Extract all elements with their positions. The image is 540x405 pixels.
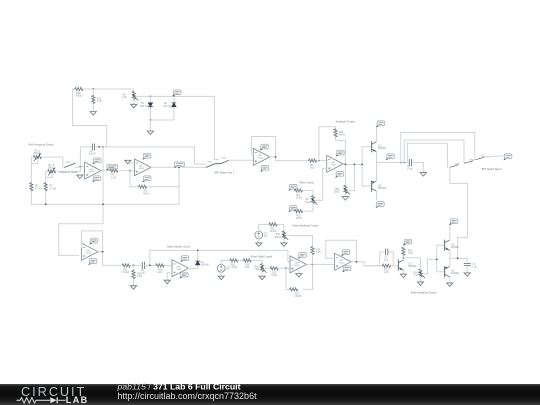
wire comparator ground pin (298, 271, 300, 274)
svg-text:1 kΩ: 1 kΩ (97, 101, 102, 103)
node junction cap corner (102, 146, 104, 148)
ground (90, 112, 96, 116)
wire OA4 output (98, 252, 117, 266)
wire wiper tap to output (349, 164, 355, 190)
V- label box OA1 (92, 176, 101, 182)
wire long vertical to BPF switch (214, 96, 219, 159)
potentiometer R26 (419, 269, 425, 278)
label box rail probe (386, 154, 395, 160)
node junction output OA1 (102, 170, 104, 172)
V+ label box OA7 (341, 250, 350, 256)
svg-text:Pulse Amplitude Control: Pulse Amplitude Control (293, 224, 319, 227)
node junction (457, 257, 459, 259)
switch SW3 (206, 164, 220, 168)
potentiometer R1_2 (48, 168, 56, 176)
wire OA7 feedback rectangle (326, 240, 357, 262)
wire pot R26 top lead (420, 266, 422, 270)
svg-text:500 Ω: 500 Ω (275, 237, 281, 239)
node junction Q3 collector (403, 257, 405, 259)
ground (464, 273, 470, 277)
wire pot to ground (344, 194, 346, 197)
svg-text:BPF Switch Side 1: BPF Switch Side 1 (214, 171, 234, 174)
capacitor C5 (409, 159, 411, 165)
resistor R19 (243, 259, 251, 262)
node junction (150, 96, 152, 98)
svg-text:10 kΩ: 10 kΩ (271, 275, 277, 277)
potentiometer R8 offset (311, 196, 317, 205)
wire V2 top rail (259, 224, 269, 231)
wire OA4 feedback rectangle (82, 231, 103, 252)
wire to OA6 plus input (229, 159, 254, 161)
wire to pot R21 (278, 224, 284, 232)
wire (150, 96, 174, 120)
ground arrow OA1 plus input (82, 174, 85, 176)
label box R4 ammeter (106, 164, 118, 170)
wire pot bottom (261, 272, 263, 276)
transistor Q5 2N3906 (445, 267, 450, 277)
wire Q5 emitter (449, 258, 451, 266)
svg-text:BPF Switch Side 2: BPF Switch Side 2 (482, 168, 502, 171)
ground (256, 243, 262, 247)
potentiometer R61 (344, 185, 350, 194)
svg-text:LM324: LM324 (257, 158, 263, 160)
wire OA7 output (351, 262, 380, 266)
svg-text:LM324: LM324 (86, 252, 92, 254)
V- label box OA3 (179, 272, 188, 278)
node junction (345, 164, 347, 166)
ground (281, 243, 287, 247)
V+ label box OA1 (92, 158, 101, 164)
ground arrow OA2 plus input (131, 162, 135, 164)
node junction (318, 160, 320, 162)
wire OA3 plus input stub (167, 273, 172, 280)
node junction (275, 156, 277, 158)
potentiometer R0 1k (132, 91, 138, 100)
op-amp OA2 (134, 159, 151, 176)
wire (149, 96, 151, 120)
wire V1 bottom (220, 272, 222, 276)
ground (447, 283, 453, 287)
logo resistor-diode squiggle (17, 398, 51, 403)
ground (130, 286, 136, 290)
wire Q4 collector (449, 224, 451, 240)
ground (342, 197, 348, 201)
resistor R23 (382, 264, 390, 267)
svg-text:Amplitude Control: Amplitude Control (336, 121, 355, 124)
svg-text:10 µF: 10 µF (407, 168, 414, 170)
wire pot bottom (283, 239, 285, 243)
switch SW1 (65, 163, 76, 167)
svg-text:4.7 kΩ: 4.7 kΩ (35, 188, 42, 190)
wire OA2 output (151, 166, 206, 168)
ground (420, 173, 426, 177)
resistor R08 (75, 87, 83, 90)
node junction (129, 170, 131, 172)
svg-text:2N3904: 2N3904 (408, 266, 417, 268)
svg-text:1 kΩ: 1 kΩ (310, 168, 315, 170)
svg-text:4.7 kΩ: 4.7 kΩ (49, 188, 56, 190)
ground (296, 274, 302, 278)
wire OA6 feedback rectangle (252, 137, 276, 157)
wire collector to pot R26 (403, 258, 420, 266)
svg-text:LM311: LM311 (294, 265, 300, 267)
wire to output port (484, 156, 505, 157)
ground (218, 276, 224, 280)
svg-text:Fine Frequency Control: Fine Frequency Control (29, 144, 54, 147)
resistor R22 (269, 223, 277, 226)
wire (57, 170, 80, 172)
capacitor C1 (92, 144, 94, 150)
svg-text:2N3906: 2N3906 (451, 273, 460, 275)
svg-text:500 Ω: 500 Ω (34, 153, 40, 155)
resistor R6b input (309, 159, 317, 162)
wire damper top rail (145, 250, 291, 265)
wire V2 bottom (258, 239, 260, 243)
node junction (312, 264, 314, 266)
comparator CMP1 LM311 (290, 256, 307, 273)
voltage source V1 (217, 264, 225, 272)
svg-text:LAB: LAB (66, 395, 89, 405)
svg-text:1 kΩ: 1 kΩ (254, 269, 259, 271)
svg-text:630 mV: 630 mV (140, 106, 148, 108)
ground (259, 276, 265, 280)
potentiometer R16 (261, 264, 267, 273)
capacitor C6 (142, 262, 144, 268)
svg-text:1 kΩ: 1 kΩ (316, 252, 321, 254)
node junction (354, 164, 356, 166)
transistor Q3 2N3904 (398, 260, 403, 270)
node junction (150, 119, 152, 121)
switch SW6 (450, 165, 459, 168)
wire Q5 collector (449, 277, 451, 283)
wire R11 leads (133, 265, 135, 285)
wire Q3 collector (402, 256, 404, 260)
wire pot wiper rail (137, 95, 215, 97)
node junction (361, 164, 363, 166)
ground (417, 282, 423, 286)
op-amp OA7 (335, 253, 352, 270)
svg-text:10 kΩ: 10 kΩ (296, 218, 302, 220)
wire (149, 120, 151, 131)
wire feedback loop up (319, 127, 346, 187)
wire R25 top to label (402, 244, 404, 247)
wire Q3 emitter (402, 270, 404, 274)
svg-text:1 kΩ: 1 kΩ (408, 253, 413, 255)
V+ label box OA5 (335, 150, 344, 156)
svg-text:http://circuitlab.com/crxqcn77: http://circuitlab.com/crxqcn7732b6t (118, 391, 258, 401)
label box V+ R25 (403, 239, 412, 245)
wire base column (362, 147, 372, 186)
svg-text:2N3906: 2N3906 (378, 188, 387, 190)
svg-text:2N3904: 2N3904 (378, 148, 387, 150)
wire to OA5 minus (318, 160, 327, 162)
wire (304, 204, 313, 212)
wire (239, 259, 243, 261)
node junction (92, 88, 94, 90)
op-amp OA4 (82, 243, 99, 260)
svg-text:1 kΩ: 1 kΩ (384, 272, 389, 274)
svg-text:Active Damper Circuit: Active Damper Circuit (167, 246, 190, 249)
switch SW5 (464, 161, 473, 163)
wire (75, 166, 85, 171)
svg-text:10 kΩ: 10 kΩ (270, 231, 276, 233)
node label box VD (172, 90, 181, 96)
node junction (403, 162, 405, 164)
node junction (178, 166, 180, 168)
resistor R4 (110, 169, 118, 172)
wire (117, 264, 141, 266)
resistor R60 (334, 129, 337, 137)
svg-text:1 µF: 1 µF (384, 260, 389, 262)
node junction (80, 166, 82, 168)
label box +2.5V source (288, 184, 297, 190)
V- label box OA5 (335, 172, 344, 178)
V- label box OA6 (260, 165, 269, 171)
svg-text:1 µF: 1 µF (140, 272, 145, 274)
resistor R5 (139, 185, 147, 188)
svg-text:1N4148: 1N4148 (201, 265, 210, 267)
node junction bus-R7 (45, 203, 47, 205)
svg-text:1.8 kΩ: 1.8 kΩ (230, 267, 237, 269)
svg-text:1 µF: 1 µF (472, 266, 477, 268)
wire base column q4 q5 (437, 245, 445, 272)
wire (304, 191, 313, 197)
wire feedback R5 (130, 167, 179, 204)
wire feedback to C1 (80, 147, 205, 167)
svg-text:Pulse Width Control: Pulse Width Control (251, 255, 273, 258)
wire (165, 264, 172, 266)
node junction cap rail (98, 146, 100, 148)
label box gain probe (174, 162, 185, 168)
wire RC parallel frame (364, 252, 398, 266)
diode D4 (196, 261, 200, 265)
node junction (173, 96, 175, 98)
svg-text:1 kΩ: 1 kΩ (157, 272, 162, 274)
label box V+ Q4 (449, 219, 458, 225)
op-amp OA3 damper (172, 260, 189, 277)
svg-text:10 kΩ: 10 kΩ (296, 197, 302, 199)
svg-text:LM324: LM324 (89, 171, 95, 173)
switch SW2 (220, 160, 229, 164)
wire emitter output rail (377, 163, 424, 173)
svg-text:500 Ω: 500 Ω (48, 167, 54, 169)
V+ label box OA3 (180, 256, 189, 262)
wire pot R26 bottom (420, 277, 422, 282)
transistor Q1 2N3904 (372, 142, 377, 152)
svg-text:1 kΩ: 1 kΩ (244, 267, 249, 269)
transistor Q4 2N3904 (445, 240, 450, 250)
diode D1 (148, 103, 152, 107)
node junction (133, 265, 135, 267)
resistor R10 (295, 210, 303, 213)
svg-text:6.8 kΩ: 6.8 kΩ (76, 96, 83, 98)
node junction (102, 251, 104, 253)
wire OA3 output to D4 (189, 250, 198, 268)
wire Q4 emitter (449, 250, 451, 258)
wire (84, 88, 134, 90)
transistor Q2 2N3906 (372, 181, 377, 191)
svg-text:1 kΩ: 1 kΩ (137, 276, 142, 278)
resistor R11 (132, 271, 135, 279)
label box V+ Q1 (376, 121, 385, 127)
svg-text:500 Ω: 500 Ω (143, 193, 149, 195)
voltage source V2 (255, 231, 263, 239)
svg-text:TL081: TL081 (176, 269, 181, 271)
footer bar (0, 384, 540, 405)
wire C7 bottom (466, 267, 468, 273)
resistor R6 (30, 183, 33, 191)
wire main vertical column (59, 147, 103, 256)
wire switch common down to output stage (450, 167, 468, 258)
svg-text:500 nF: 500 nF (89, 154, 97, 156)
wire ground reference bus (31, 203, 179, 205)
potentiometer R21 (282, 231, 288, 240)
wire to comparator plus (280, 267, 291, 269)
wire (46, 171, 53, 204)
resistor R15 (270, 267, 278, 270)
node junction (285, 267, 287, 269)
switch SW4 (476, 157, 484, 159)
resistor R13 5.6k (122, 264, 130, 267)
svg-text:1 kΩ: 1 kΩ (122, 97, 127, 99)
resistor R9 (294, 189, 302, 192)
wire OA5 output (344, 163, 363, 165)
svg-text:1 kΩ: 1 kΩ (111, 177, 116, 179)
ground (400, 274, 406, 278)
ground (131, 104, 137, 108)
potentiometer R1_1 (33, 153, 41, 161)
resistor R12 1k (92, 95, 95, 103)
V+ label box OA2 (142, 153, 151, 159)
svg-text:LM324: LM324 (339, 262, 345, 264)
resistor R14 1k (156, 264, 164, 267)
op-amp OA6 (253, 148, 269, 165)
op-amp OA1 (85, 162, 102, 179)
wire Q1 collector (376, 126, 378, 142)
node junction (356, 261, 358, 263)
wire output rail to C7 (450, 258, 467, 262)
V- label box OA7 (342, 266, 351, 272)
output port label box (503, 154, 512, 160)
wire OA6 output (270, 157, 309, 161)
svg-text:1.5 MΩ: 1.5 MΩ (294, 296, 302, 298)
wire R26 wiper to base column (424, 259, 437, 274)
wire Q2 emitter (376, 163, 378, 181)
diode D2 (172, 103, 176, 107)
wire (133, 89, 135, 104)
svg-text:Pulse Amplitude Control: Pulse Amplitude Control (411, 292, 437, 295)
capacitor C7 (464, 263, 470, 265)
label box V- Q2 (375, 202, 384, 208)
wire V1 top (221, 260, 230, 264)
svg-text:2 Ω: 2 Ω (414, 275, 418, 277)
wire wiper to R15 (265, 267, 269, 269)
V- label box OA2 (142, 176, 151, 182)
wire loop L2 middle (404, 140, 464, 163)
svg-text:100 Ω: 100 Ω (339, 135, 345, 137)
wire to pot R16 (253, 260, 263, 264)
resistor R7 (44, 183, 47, 191)
svg-text:5.6 kΩ: 5.6 kΩ (122, 272, 129, 274)
wire loop L3 inner (407, 143, 447, 167)
wire Q2 collector (376, 191, 378, 200)
wire wiper to R18 top (287, 235, 289, 237)
svg-text:5 V: 5 V (226, 269, 230, 271)
wire (31, 157, 38, 204)
wire OA5 plus input to offset wiper (316, 168, 327, 200)
resistor R17 hysteresis (290, 288, 298, 291)
V+ label box OA6 (260, 144, 269, 150)
svg-text:Offset Control: Offset Control (299, 181, 314, 184)
svg-text:500 Ω: 500 Ω (334, 192, 340, 194)
label box -2.5V source (288, 206, 297, 212)
wire comparator output (307, 263, 335, 265)
wire Q1 emitter (376, 152, 378, 163)
V+ label box OA4 (89, 238, 98, 244)
op-amp OA5 (327, 155, 344, 172)
node junction (197, 250, 199, 252)
resistor R18 pullup (311, 246, 314, 254)
ground (147, 131, 153, 135)
svg-text:10 kΩ: 10 kΩ (305, 202, 311, 204)
wire loop L1 outer (401, 133, 475, 163)
wire (92, 89, 94, 112)
wire hysteresis loop (286, 264, 313, 289)
node junction (436, 259, 438, 261)
svg-text:LM324: LM324 (138, 168, 144, 170)
V+ label box CMP1 (298, 253, 307, 259)
resistor R20 (230, 259, 238, 262)
svg-text:LM324: LM324 (331, 165, 337, 167)
svg-text:2N3904: 2N3904 (451, 247, 460, 249)
node junction bus-column (102, 203, 104, 205)
node junction (149, 265, 151, 267)
wire (43, 157, 63, 167)
wire (73, 89, 107, 147)
node junction (400, 162, 402, 164)
wire (119, 170, 134, 172)
resistor R25 (402, 247, 405, 255)
ground (164, 280, 170, 284)
svg-text:630 mV: 630 mV (163, 106, 171, 108)
V- label box OA4 (88, 259, 97, 265)
wire R18 leads (289, 236, 313, 265)
svg-text:5 V: 5 V (264, 236, 268, 238)
wire OA1 output (101, 169, 110, 171)
capacitor C9 (386, 249, 388, 255)
